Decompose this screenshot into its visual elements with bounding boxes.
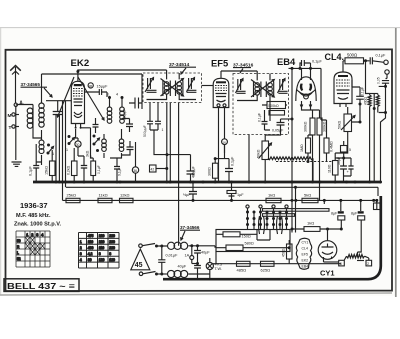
wire EB4 right drop: [321, 68, 327, 120]
IF2 crossing arrows: [251, 80, 274, 98]
svg-text:220: 220: [99, 234, 105, 238]
svg-text:EK2: EK2: [302, 259, 309, 263]
resistor 485Ohm: [237, 261, 251, 272]
node A: [14, 101, 25, 107]
svg-text:450Ω: 450Ω: [282, 248, 286, 257]
svg-text:3: 3: [340, 262, 342, 266]
wire 500ohm junction down: [366, 61, 370, 94]
IF2 coil B: [266, 82, 273, 98]
resistor 300Ohm: [208, 159, 219, 184]
resistor 150Ohm: [216, 230, 270, 241]
power transformer label 37-34566: [180, 225, 200, 240]
svg-text:50kΩ: 50kΩ: [257, 149, 261, 158]
svg-text:15kΩ: 15kΩ: [45, 166, 49, 175]
svg-text:600µµF: 600µµF: [123, 109, 127, 120]
oscillator coil L3a: [107, 93, 112, 124]
wire IF1 to EF5 grid: [202, 85, 214, 87]
tube label EB4: [277, 56, 296, 67]
capacitor 1uF bus: [227, 181, 244, 202]
lamp label: [215, 263, 222, 272]
svg-text:485Ω: 485Ω: [237, 268, 247, 273]
terminal T: [9, 125, 20, 131]
heater strap bar b: [263, 214, 295, 217]
wire EK2 grid left: [46, 101, 71, 123]
transformer right wires: [188, 246, 215, 274]
tube label EF5: [211, 58, 228, 69]
svg-text:485µµF: 485µµF: [192, 166, 196, 178]
svg-text:4: 4: [116, 93, 118, 97]
capacitor IF1 bypass b: [150, 121, 164, 132]
part number 37-34565: [21, 82, 53, 97]
capacitor 40uF a: [194, 244, 210, 263]
cathode circle 30: [75, 129, 81, 156]
svg-text:30: 30: [76, 143, 80, 147]
svg-text:T: T: [9, 125, 12, 131]
svg-text:230: 230: [109, 240, 115, 244]
svg-text:4: 4: [80, 258, 82, 262]
svg-text:5: 5: [349, 148, 351, 152]
svg-text:3kΩ: 3kΩ: [86, 150, 90, 157]
resistor 11kOhm: [98, 193, 112, 203]
svg-text:0,05: 0,05: [377, 77, 381, 84]
heater network box: [216, 230, 290, 252]
wire top AVC: [42, 74, 143, 103]
svg-text:475: 475: [88, 234, 94, 238]
svg-text:CL4: CL4: [302, 247, 308, 251]
svg-text:1: 1: [90, 155, 92, 159]
text MF 485 kHz: [16, 213, 51, 219]
capacitor 50uF: [335, 157, 351, 182]
output terminal 1: [384, 60, 388, 64]
svg-text:L: L: [17, 251, 19, 255]
IF1 coil B: [176, 81, 183, 97]
capacitor IF1 bypass a: [143, 121, 153, 137]
center tap wire: [373, 94, 376, 183]
speaker zigzag b: [370, 94, 380, 113]
socket arc a: [259, 216, 265, 234]
terminal box 3: [324, 260, 345, 266]
IF1 trimmer left: [145, 78, 157, 93]
svg-text:2: 2: [367, 262, 369, 266]
svg-text:1: 1: [80, 240, 82, 244]
resistor 12kOhm: [120, 193, 134, 203]
resistor 580Ohm: [216, 242, 291, 264]
capacitor small CL4: [344, 158, 354, 176]
terminal capacitor: [377, 77, 390, 84]
svg-text:580Ω: 580Ω: [245, 242, 254, 246]
svg-text:BELL 437 ~ ≡: BELL 437 ~ ≡: [7, 281, 75, 291]
resistor 300kOhm b: [304, 110, 327, 200]
AVC dashed line: [276, 161, 332, 163]
svg-text:0,1µF: 0,1µF: [312, 60, 322, 64]
capacitor cathode bypass: [78, 156, 87, 184]
capacitor 0.1uF EB4: [300, 60, 322, 69]
grid stopper box: [341, 141, 352, 160]
svg-text:8µF: 8µF: [351, 212, 358, 216]
wire EK2 plate to IF1: [78, 70, 167, 79]
heater strap bar a: [263, 209, 330, 212]
svg-text:5kΩ: 5kΩ: [304, 193, 311, 198]
wire IF1 down: [150, 103, 158, 121]
capacitor 40uF b: [178, 262, 201, 279]
output bracket: [363, 83, 387, 183]
osc cap bottom: [114, 158, 122, 184]
svg-text:0,1µF: 0,1µF: [376, 54, 386, 58]
osc cap pair a: [122, 109, 133, 132]
antenna coil L2: [39, 74, 44, 127]
svg-text:2: 2: [31, 233, 33, 237]
resistor 450Ohm: [282, 240, 293, 264]
svg-text:Znak. 1000 St.p.V.: Znak. 1000 St.p.V.: [14, 222, 61, 228]
volume pot 50kOhm: [257, 135, 272, 184]
svg-text:37-34566: 37-34566: [180, 225, 200, 230]
svg-text:220: 220: [109, 246, 115, 250]
tube EK2: [71, 70, 84, 129]
heater pin grid: [246, 205, 288, 230]
svg-text:1: 1: [66, 148, 68, 152]
wiper wavy wire: [268, 157, 313, 182]
resistor 1kOhm CY1: [291, 221, 328, 241]
connector box right: [374, 200, 381, 209]
heater feed vertical: [294, 186, 297, 233]
resistor 1kOhm: [266, 193, 297, 203]
cathode wiring: [61, 123, 93, 200]
antenna coil L1: [27, 105, 41, 139]
svg-text:EK2: EK2: [71, 58, 90, 69]
svg-text:A.: A.: [19, 101, 25, 107]
mains plug bottom: [139, 272, 158, 276]
long vertical to transformer: [178, 103, 180, 241]
capacitor 0.01uF mains: [158, 245, 178, 276]
svg-text:300kΩ: 300kΩ: [323, 121, 327, 132]
capacitor 0.05uF AF: [265, 118, 293, 136]
svg-text:1kΩ: 1kΩ: [307, 221, 314, 226]
resistor 5kOhm: [302, 193, 326, 204]
socket arc b: [277, 216, 283, 234]
wire EB4 AF vertical: [291, 68, 294, 232]
svg-text:0,1µF: 0,1µF: [258, 113, 262, 122]
svg-text:1µF: 1µF: [237, 193, 244, 197]
resistor 25kOhm: [66, 193, 80, 203]
svg-text:0,1µF: 0,1µF: [231, 156, 235, 166]
tube list cloud: [296, 238, 311, 269]
IF2 trimmer left: [236, 79, 246, 94]
svg-text:0,01µF: 0,01µF: [166, 254, 179, 258]
svg-text:0,05µF: 0,05µF: [272, 129, 284, 133]
IF2 trimmer right: [278, 79, 288, 94]
resistor 1MOhm: [300, 135, 313, 163]
wire under IF1: [154, 130, 169, 156]
svg-text:EB4: EB4: [277, 56, 296, 67]
wire EF5 plate to IF2: [221, 71, 257, 80]
capacitor 8uF b: [351, 199, 365, 256]
svg-text:3.: 3.: [107, 93, 110, 97]
svg-text:25kΩ: 25kΩ: [67, 193, 76, 198]
svg-text:40µF: 40µF: [201, 251, 210, 255]
svg-text:CY1: CY1: [320, 269, 335, 278]
mains plug top: [139, 244, 158, 248]
svg-text:220: 220: [109, 234, 115, 238]
svg-text:0,1µF: 0,1µF: [118, 168, 122, 177]
pilot lamp: [206, 258, 213, 279]
svg-text:50: 50: [17, 239, 21, 243]
screen circle 16: [222, 139, 228, 153]
svg-text:500µµF: 500µµF: [143, 125, 147, 137]
ground: [12, 162, 22, 166]
svg-text:36: 36: [89, 84, 93, 88]
bell label box: [4, 279, 79, 292]
svg-text:300kΩ: 300kΩ: [304, 121, 308, 132]
IF1 trimmer right: [187, 78, 197, 93]
text Inak 1000: [14, 222, 61, 228]
capacitor 0.1uF IF2: [258, 110, 268, 130]
IF2 coil A: [254, 82, 261, 98]
box 42: [150, 165, 169, 172]
lower resistor line: [213, 263, 341, 265]
wire IF1 internal: [147, 73, 197, 100]
svg-text:110: 110: [99, 246, 105, 250]
wire L2 to bus: [36, 162, 41, 165]
label CY1: [320, 269, 335, 278]
svg-text:1: 1: [26, 233, 28, 237]
svg-text:30: 30: [88, 258, 92, 262]
tube CY1: [318, 241, 337, 262]
svg-text:0,2kΩ: 0,2kΩ: [67, 165, 71, 175]
padder capacitor: [93, 118, 99, 133]
terminal box 2: [366, 260, 372, 266]
text 1936-37: [20, 201, 48, 210]
voltage table: [79, 233, 120, 269]
svg-text:1936-37: 1936-37: [20, 201, 48, 210]
svg-text:CL4.: CL4.: [325, 52, 345, 62]
capacitor 0.1uF EF5: [214, 145, 235, 184]
second line: [63, 199, 379, 202]
svg-text:500Ω: 500Ω: [347, 53, 357, 58]
thick mains line: [163, 196, 381, 279]
svg-text:EB4: EB4: [302, 265, 309, 269]
tube label CL4: [325, 52, 345, 62]
svg-text:120: 120: [109, 258, 115, 262]
terminal M: [8, 113, 20, 119]
variable capacitor C-tune2: [129, 98, 142, 110]
svg-text:½µF: ½µF: [183, 193, 191, 197]
svg-text:0,1µF: 0,1µF: [29, 166, 33, 176]
resistor 0.2kOhm: [67, 148, 78, 184]
svg-text:EF5: EF5: [302, 253, 308, 257]
resistor cathode 2: [91, 158, 101, 182]
svg-text:0,1µF: 0,1µF: [97, 165, 101, 174]
svg-text:15µµF: 15µµF: [97, 85, 109, 89]
fuse 1A: [185, 244, 194, 263]
wire IF2 inner: [262, 102, 287, 122]
svg-text:3: 3: [36, 233, 38, 237]
svg-text:0,1µF: 0,1µF: [360, 87, 364, 96]
power transformer secondary: [157, 270, 188, 277]
part number 37-34516: [233, 63, 254, 74]
svg-text:40µF: 40µF: [178, 265, 187, 269]
tube label EK2: [71, 58, 90, 69]
page left edge line: [0, 28, 2, 295]
tube EB4: [296, 68, 316, 107]
resistor 300kOhm a: [302, 107, 316, 184]
capacitor 8uF a: [326, 199, 345, 231]
svg-text:1MΩ: 1MΩ: [300, 144, 304, 152]
svg-text:37-34565: 37-34565: [21, 82, 41, 87]
capacitor 0.1uF bus a: [183, 181, 197, 202]
wire EF5 cathode down: [219, 107, 225, 182]
grid switch contact: [66, 135, 75, 152]
variable capacitor C-tune1: [53, 101, 63, 184]
svg-text:36: 36: [133, 169, 137, 173]
svg-text:8: 8: [109, 252, 111, 256]
svg-text:490: 490: [88, 246, 94, 250]
svg-text:12kΩ: 12kΩ: [120, 193, 129, 198]
oscillator switch contacts: [90, 135, 100, 160]
resistor 0.4MOhm: [324, 120, 334, 162]
svg-text:M: M: [8, 113, 12, 119]
bus junction dots: [119, 181, 357, 184]
IF1 crossing arrows: [161, 79, 184, 97]
output terminal 2: [385, 70, 389, 79]
resistor 500kOhm box: [267, 102, 286, 116]
svg-text:11kΩ: 11kΩ: [99, 193, 108, 198]
svg-text:16: 16: [222, 140, 226, 144]
svg-text:400Ω: 400Ω: [363, 96, 367, 105]
oscillator coil L5a: [102, 134, 107, 158]
output coupling capacitor 0.1uF: [370, 54, 386, 65]
oscillator coil L3b: [116, 93, 124, 124]
page right edge line: [395, 28, 397, 297]
resistor 15kOhm: [45, 150, 56, 182]
svg-text:150Ω: 150Ω: [242, 235, 251, 239]
page top edge line: [0, 27, 400, 29]
tube EF5: [213, 71, 229, 108]
resistor 625Ohm: [261, 261, 275, 272]
capacitor 0.1uF antenna: [29, 144, 40, 182]
svg-text:110Ω: 110Ω: [328, 164, 332, 173]
heater line: [66, 187, 378, 196]
resistor 500Ohm: [343, 53, 370, 64]
zigzag resistor CY1: [344, 254, 369, 260]
IF1 secondary legs: [165, 103, 172, 184]
svg-text:120: 120: [99, 258, 105, 262]
svg-text:M.F. 485 kHz.: M.F. 485 kHz.: [16, 213, 51, 219]
speaker zigzag a: [368, 94, 371, 184]
svg-text:52: 52: [17, 257, 21, 261]
svg-text:110: 110: [88, 240, 94, 244]
osc cap pair b: [122, 141, 134, 155]
svg-text:1A: 1A: [185, 254, 190, 258]
circle 36 left: [132, 142, 138, 182]
svg-text:4,2: 4,2: [88, 252, 93, 256]
page bottom edge line: [0, 293, 392, 295]
svg-text:CY1: CY1: [302, 241, 309, 245]
svg-text:2: 2: [80, 246, 82, 250]
tube CL4: [334, 61, 352, 107]
band switch contacts: [47, 144, 55, 157]
svg-text:50kΩ: 50kΩ: [338, 120, 342, 129]
svg-text:3: 3: [80, 252, 82, 256]
svg-text:300Ω: 300Ω: [208, 167, 212, 176]
antenna: [10, 66, 21, 103]
antenna band coil: [39, 130, 44, 162]
IF1 coil A: [163, 81, 170, 97]
oscillator coil L5b: [110, 129, 124, 158]
svg-text:50µF: 50µF: [337, 157, 341, 165]
svg-text:8: 8: [99, 252, 101, 256]
triangle 45: [131, 249, 150, 270]
capacitor 0.05uF mid: [167, 155, 196, 184]
screen cap circle 36: [88, 83, 93, 88]
svg-text:220: 220: [99, 240, 105, 244]
svg-text:8µF: 8µF: [331, 212, 338, 216]
svg-text:1: 1: [162, 128, 164, 132]
svg-text:1kΩ: 1kΩ: [268, 193, 275, 198]
part number 37-34514: [169, 62, 196, 74]
svg-text:45: 45: [135, 262, 143, 269]
svg-text:4: 4: [41, 233, 43, 237]
tuning gang line left: [57, 77, 74, 117]
CL4 cathode resistor 110Ohm: [328, 153, 339, 184]
IF transformer 1 box: [143, 73, 202, 103]
schematic border frame: [6, 49, 393, 291]
svg-text:625Ω: 625Ω: [261, 268, 271, 273]
svg-text:42: 42: [151, 168, 155, 172]
wire IF2 bottom: [248, 130, 271, 184]
svg-text:EF5: EF5: [211, 58, 228, 69]
wire antenna to ground: [16, 105, 33, 161]
wire IF2 tops: [237, 74, 270, 102]
svg-text:T.W.: T.W.: [215, 267, 222, 271]
wire EB4 top line: [289, 67, 322, 70]
wire caps top: [375, 199, 378, 210]
svg-text:0,4MΩ: 0,4MΩ: [330, 141, 334, 152]
power transformer primary: [157, 241, 188, 249]
IF transformer 2 box: [233, 74, 289, 135]
tone pot 50kOhm: [335, 103, 361, 154]
switch table: [16, 231, 50, 267]
main ground bus: [33, 181, 381, 184]
capacitor 15pF: [85, 85, 109, 98]
tuning gang line right: [78, 77, 104, 120]
capacitor 0.1uF CL4 plate: [352, 80, 364, 104]
